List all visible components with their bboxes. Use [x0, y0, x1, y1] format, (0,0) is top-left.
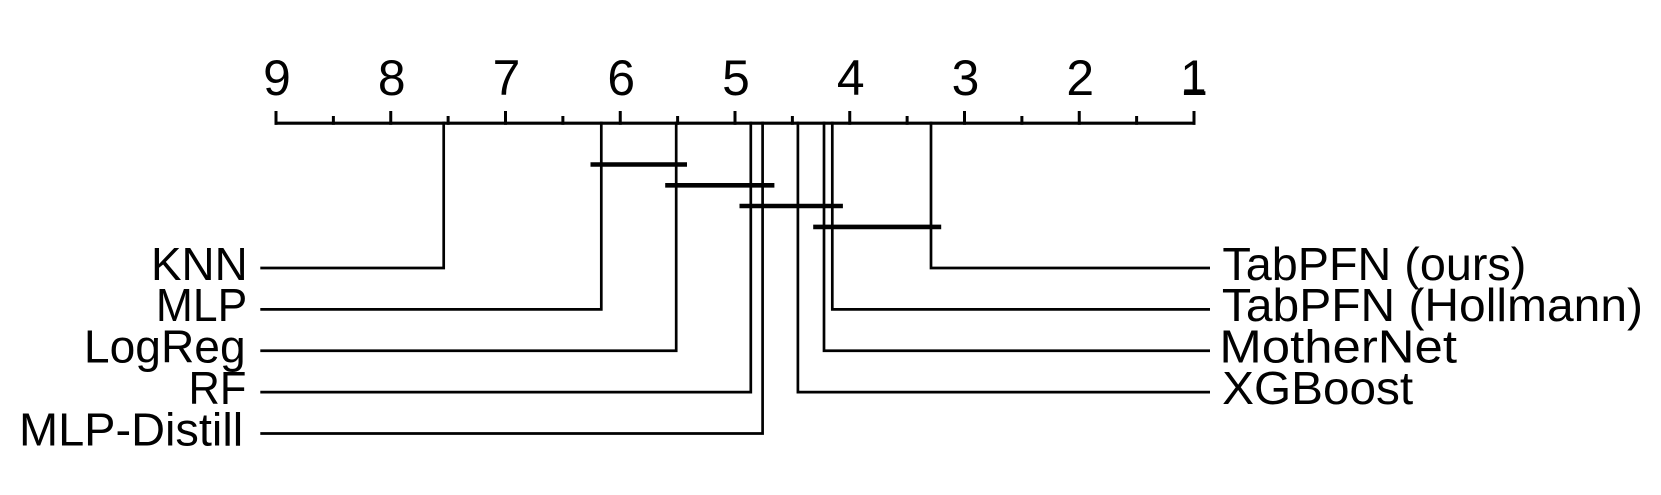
svg-text:3: 3	[952, 50, 980, 106]
svg-text:8: 8	[378, 50, 406, 106]
foot of digit 1	[1184, 89, 1204, 94]
significance bar MLP-LogReg group	[591, 162, 688, 167]
svg-text:5: 5	[722, 50, 750, 106]
major tick 9	[275, 111, 278, 125]
svg-text:6: 6	[607, 50, 635, 106]
major tick 4	[848, 111, 851, 125]
TabPFN (Hollmann) wire	[832, 122, 1210, 310]
significance bar LogReg-RF-MLPDistill group	[665, 183, 774, 188]
TabPFN (ours) wire	[931, 122, 1210, 268]
significance bar RF-to-TabPFNHollmann group	[740, 204, 843, 209]
axis line	[275, 122, 1196, 125]
MLP-Distill wire	[260, 122, 762, 434]
svg-text:7: 7	[493, 50, 521, 106]
RF wire	[260, 122, 751, 393]
MLP wire	[260, 122, 601, 310]
svg-text:2: 2	[1066, 50, 1094, 106]
major tick 2	[1078, 111, 1081, 125]
major tick 1	[1193, 111, 1196, 125]
svg-text:1: 1	[1180, 50, 1208, 106]
minor tick 3.5	[906, 116, 909, 125]
major tick 6	[619, 111, 622, 125]
minor tick 8.5	[332, 116, 335, 125]
minor tick 5.5	[676, 116, 679, 125]
minor tick 7.5	[447, 116, 450, 125]
major tick 3	[963, 111, 966, 125]
minor tick 2.5	[1020, 116, 1023, 125]
major tick 8	[389, 111, 392, 125]
LogReg wire	[260, 122, 676, 351]
svg-text:MLP-Distill: MLP-Distill	[19, 403, 243, 455]
major tick 7	[504, 111, 507, 125]
minor tick 1.5	[1135, 116, 1138, 125]
XGBoost wire	[798, 122, 1210, 393]
major tick 5	[734, 111, 737, 125]
significance bar MotherNet-to-TabPFNours group	[813, 225, 941, 230]
svg-text:TabPFN (ours): TabPFN (ours)	[1222, 238, 1526, 290]
KNN wire	[260, 122, 443, 268]
MotherNet wire	[824, 122, 1210, 351]
minor tick 6.5	[561, 116, 564, 125]
svg-text:4: 4	[837, 50, 865, 106]
svg-text:9: 9	[263, 50, 291, 106]
minor tick 4.5	[791, 116, 794, 125]
